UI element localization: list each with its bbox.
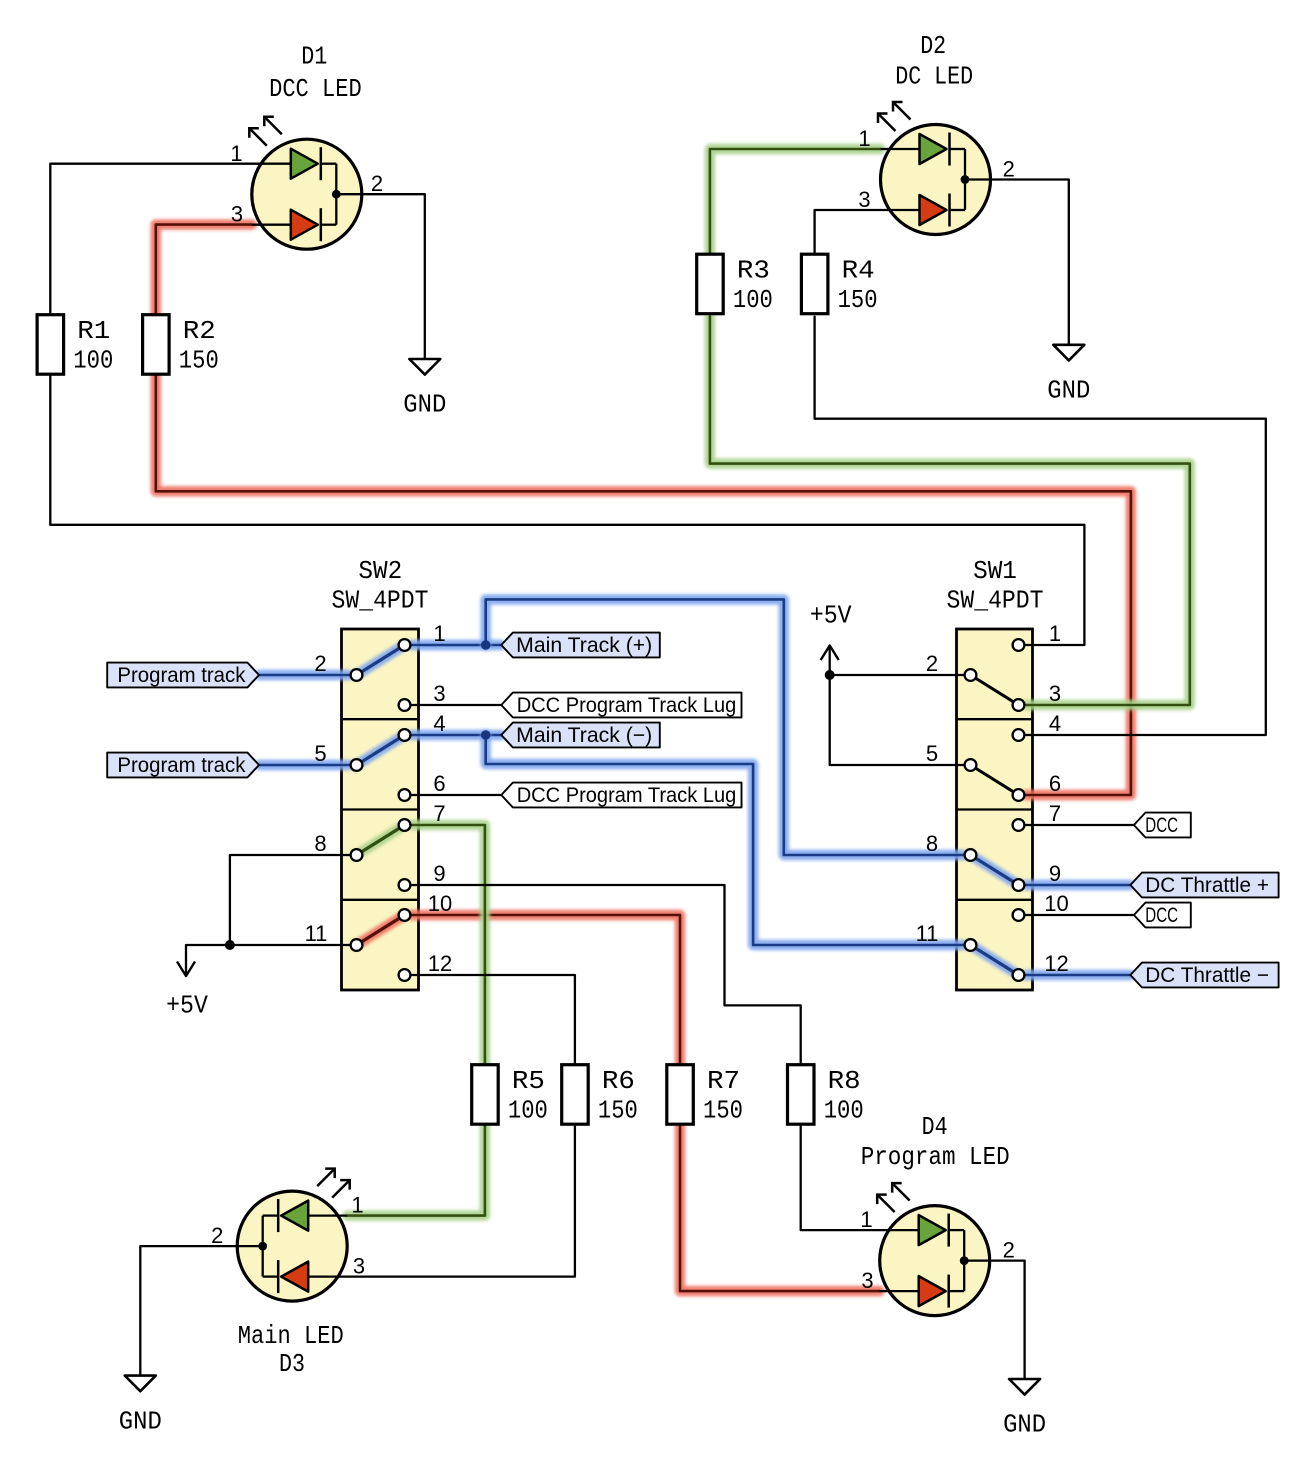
pin numbers SW1 (916, 621, 1069, 976)
ground GND at D1 (403, 359, 446, 420)
ground GND at D3 (119, 1376, 162, 1437)
pin numbers D4 (860, 1207, 1014, 1293)
svg-text:3: 3 (861, 1268, 873, 1293)
LED D4 (877, 1183, 990, 1316)
svg-text:10: 10 (428, 891, 452, 916)
resistor R4 (801, 254, 877, 315)
svg-text:GND: GND (403, 390, 446, 420)
switch SW1 throw pin5-pin6 (971, 765, 1019, 795)
svg-text:6: 6 (1049, 771, 1061, 796)
net label DCC (pin10) (1134, 903, 1191, 928)
LED D2 (878, 102, 991, 235)
svg-text:100: 100 (824, 1095, 864, 1125)
net label DCC (pin7) (1134, 813, 1191, 838)
svg-text:R2: R2 (183, 316, 216, 346)
wire +5V junction to SW1 pin5 (830, 675, 963, 765)
svg-text:Main Track (+): Main Track (+) (516, 634, 652, 657)
svg-text:7: 7 (433, 801, 445, 826)
svg-text:GND: GND (1047, 376, 1090, 406)
svg-text:D1: D1 (301, 41, 327, 71)
wire SW2 pin10 to R7 (red net) (412, 915, 680, 1065)
svg-text:5: 5 (314, 741, 326, 766)
svg-text:150: 150 (179, 345, 219, 375)
switch SW1 throw pin8-pin9 (blue) (971, 855, 1019, 885)
svg-text:12: 12 (1044, 951, 1068, 976)
net label DCC Program Track Lug (pin6) (501, 783, 741, 808)
svg-text:3: 3 (433, 681, 445, 706)
net label Program track (pin2) (107, 663, 259, 688)
svg-text:SW_4PDT: SW_4PDT (947, 586, 1044, 616)
svg-text:1: 1 (351, 1193, 363, 1218)
svg-text:9: 9 (433, 861, 445, 886)
switch SW2 throw pin11-pin10 (red) (357, 915, 405, 945)
wire SW2 pin12 to R6 (412, 975, 575, 1065)
svg-text:+5V: +5V (166, 990, 208, 1020)
wire Program track label to SW2 pin5 (blue) (259, 760, 349, 770)
wire R8 to D4 pin1 (801, 1124, 880, 1231)
wire Main Track (+) to SW1 pin8 (blue) (486, 599, 963, 855)
wire D1 pin3 to R2 (red net) (156, 225, 252, 315)
svg-text:2: 2 (1003, 1238, 1015, 1263)
power +5V at SW2 (166, 945, 208, 1020)
net label Program track (pin5) (107, 753, 259, 778)
svg-text:DCC: DCC (1145, 904, 1178, 927)
wire D2 pin2 to GND (965, 180, 1069, 345)
svg-text:1: 1 (1049, 621, 1061, 646)
net label DC Thrattle + (1130, 873, 1278, 898)
switch SW1 body (957, 629, 1033, 990)
wire D4 pin2 to GND (964, 1261, 1025, 1379)
wire R1 to SW1 pin1 (50, 376, 1084, 646)
resistor R3 (697, 254, 773, 315)
junction Main Track (-) (481, 730, 491, 740)
resistor R6 (562, 1065, 638, 1126)
svg-text:DC Thrattle −: DC Thrattle − (1145, 964, 1269, 987)
svg-text:150: 150 (598, 1095, 638, 1125)
svg-text:100: 100 (508, 1095, 548, 1125)
svg-text:R3: R3 (737, 256, 770, 286)
junction +5V at SW1 (825, 670, 835, 680)
net label Main Track (-) (501, 723, 660, 748)
svg-text:DC Thrattle +: DC Thrattle + (1145, 874, 1269, 897)
wire SW2 pin6 to DCC Program Track Lug label (412, 794, 501, 796)
wire SW2 pin3 to DCC Program Track Lug label (412, 704, 501, 706)
switch SW1 pin contacts (965, 639, 1025, 981)
svg-text:12: 12 (428, 951, 452, 976)
svg-text:GND: GND (1003, 1410, 1046, 1440)
resistor R2 (143, 315, 219, 376)
svg-text:4: 4 (433, 711, 445, 736)
svg-text:R6: R6 (602, 1066, 635, 1096)
svg-text:3: 3 (353, 1254, 365, 1279)
svg-text:Main LED: Main LED (238, 1321, 344, 1351)
svg-text:R8: R8 (828, 1066, 861, 1096)
power +5V at SW1 (810, 601, 852, 676)
LED D1 (249, 117, 361, 250)
svg-text:Program track: Program track (117, 754, 245, 777)
svg-text:R7: R7 (707, 1066, 740, 1096)
svg-text:10: 10 (1044, 891, 1068, 916)
pin numbers D1 (230, 141, 383, 227)
svg-text:2: 2 (1003, 157, 1015, 182)
wire R7 to D4 pin3 (red net) (680, 1124, 880, 1292)
pin numbers SW2 (305, 621, 453, 976)
svg-text:R5: R5 (512, 1066, 545, 1096)
wire R4 to SW1 pin4 (815, 317, 1266, 735)
pin numbers D2 (858, 126, 1014, 212)
junction +5V at SW2 (225, 940, 235, 950)
wire SW2 pin7 to R5 (green net) (412, 825, 485, 1065)
wire D1 pin2 to GND (336, 194, 425, 359)
wire Program track label to SW2 pin2 (blue) (259, 670, 349, 680)
switch SW1 throw pin2-pin3 (971, 675, 1019, 705)
svg-text:DCC Program Track Lug: DCC Program Track Lug (517, 784, 737, 807)
svg-text:2: 2 (314, 651, 326, 676)
switch SW2 body (342, 629, 419, 990)
svg-text:1: 1 (858, 126, 870, 151)
switch SW2 throw pin8-pin7 (green) (357, 825, 405, 855)
svg-text:100: 100 (733, 285, 773, 315)
ground GND at D4 (1003, 1379, 1046, 1440)
net label DCC Program Track Lug (pin3) (501, 693, 741, 718)
LED D3 (237, 1169, 350, 1302)
pin numbers D3 (211, 1193, 365, 1279)
wire R2 to SW1 pin6 (red net) (156, 376, 1131, 796)
net label DC Thrattle - (1130, 963, 1278, 988)
net label Main Track (+) (501, 633, 660, 658)
svg-text:1: 1 (230, 141, 242, 166)
wire D1 pin1 to R1 (50, 164, 252, 315)
wire D2 pin3 to R4 (815, 210, 881, 254)
svg-text:+5V: +5V (810, 601, 852, 631)
svg-text:D3: D3 (279, 1349, 305, 1379)
wire SW2 pin9 to R8 (412, 885, 801, 1065)
svg-text:5: 5 (926, 741, 938, 766)
svg-text:11: 11 (305, 921, 328, 946)
wire SW1 pin9 to DC Thrattle + label (blue) (1026, 880, 1130, 890)
svg-text:8: 8 (314, 831, 326, 856)
svg-text:3: 3 (231, 202, 243, 227)
svg-text:GND: GND (119, 1406, 162, 1436)
wire SW2 pin4 to Main Track (-) label (blue) (412, 730, 501, 740)
svg-text:150: 150 (838, 285, 878, 315)
wire R5 to D3 pin1 (green net) (347, 1124, 485, 1216)
svg-text:DCC LED: DCC LED (269, 74, 362, 104)
ground GND at D2 (1047, 345, 1090, 406)
svg-text:DC LED: DC LED (895, 61, 973, 91)
svg-text:DCC: DCC (1145, 814, 1178, 837)
svg-text:DCC Program Track Lug: DCC Program Track Lug (517, 694, 737, 717)
svg-text:SW_4PDT: SW_4PDT (332, 586, 429, 616)
wire R3 to SW1 pin3 (green net) (710, 317, 1190, 705)
junction Main Track (+) (481, 640, 491, 650)
wire SW2 pin8 to +5V junction (230, 855, 349, 945)
svg-text:Program LED: Program LED (861, 1142, 1010, 1172)
svg-text:1: 1 (860, 1207, 872, 1232)
switch SW2 throw pin2-pin1 (blue) (357, 645, 405, 675)
svg-text:D4: D4 (922, 1112, 948, 1142)
svg-text:3: 3 (858, 187, 870, 212)
svg-text:SW2: SW2 (358, 556, 402, 586)
wire Main Track (-) to SW1 pin11 (blue) (486, 735, 963, 945)
svg-text:6: 6 (433, 771, 445, 796)
svg-text:9: 9 (1049, 861, 1061, 886)
wire D2 pin1 to R3 (green net) (710, 149, 881, 254)
wire SW2 pin1 to Main Track (+) label (blue) (412, 640, 501, 650)
svg-text:D2: D2 (920, 31, 946, 61)
switch SW2 pin contacts (351, 639, 411, 981)
wire R6 to D3 pin3 (347, 1124, 575, 1277)
svg-text:2: 2 (926, 651, 938, 676)
svg-text:11: 11 (916, 921, 939, 946)
switch SW2 throw pin5-pin4 (blue) (357, 735, 405, 765)
svg-text:Program track: Program track (117, 664, 245, 687)
svg-text:150: 150 (703, 1095, 743, 1125)
svg-text:7: 7 (1049, 801, 1061, 826)
svg-text:8: 8 (926, 831, 938, 856)
wire SW1 pin10 to DCC label (1026, 914, 1134, 916)
resistor R5 (472, 1065, 548, 1126)
svg-text:4: 4 (1049, 711, 1061, 736)
wire SW1 pin2 to +5V junction (830, 674, 963, 676)
svg-text:SW1: SW1 (973, 556, 1017, 586)
svg-text:2: 2 (371, 171, 383, 196)
svg-text:R1: R1 (77, 316, 110, 346)
wire SW1 pin12 to DC Thrattle - label (blue) (1026, 970, 1130, 980)
svg-text:R4: R4 (842, 256, 875, 286)
switch SW1 throw pin11-pin12 (blue) (971, 945, 1019, 975)
resistor R7 (667, 1065, 743, 1126)
svg-text:1: 1 (433, 621, 445, 646)
resistor R8 (788, 1065, 864, 1126)
wire SW1 pin7 to DCC label (1026, 824, 1134, 826)
resistor R1 (37, 315, 113, 376)
svg-text:Main Track (−): Main Track (−) (516, 724, 652, 747)
svg-text:2: 2 (211, 1223, 223, 1248)
wire D3 pin2 to GND (140, 1246, 262, 1376)
svg-text:100: 100 (73, 345, 113, 375)
wire SW2 pin11 to +5V (186, 944, 349, 946)
svg-text:3: 3 (1049, 681, 1061, 706)
